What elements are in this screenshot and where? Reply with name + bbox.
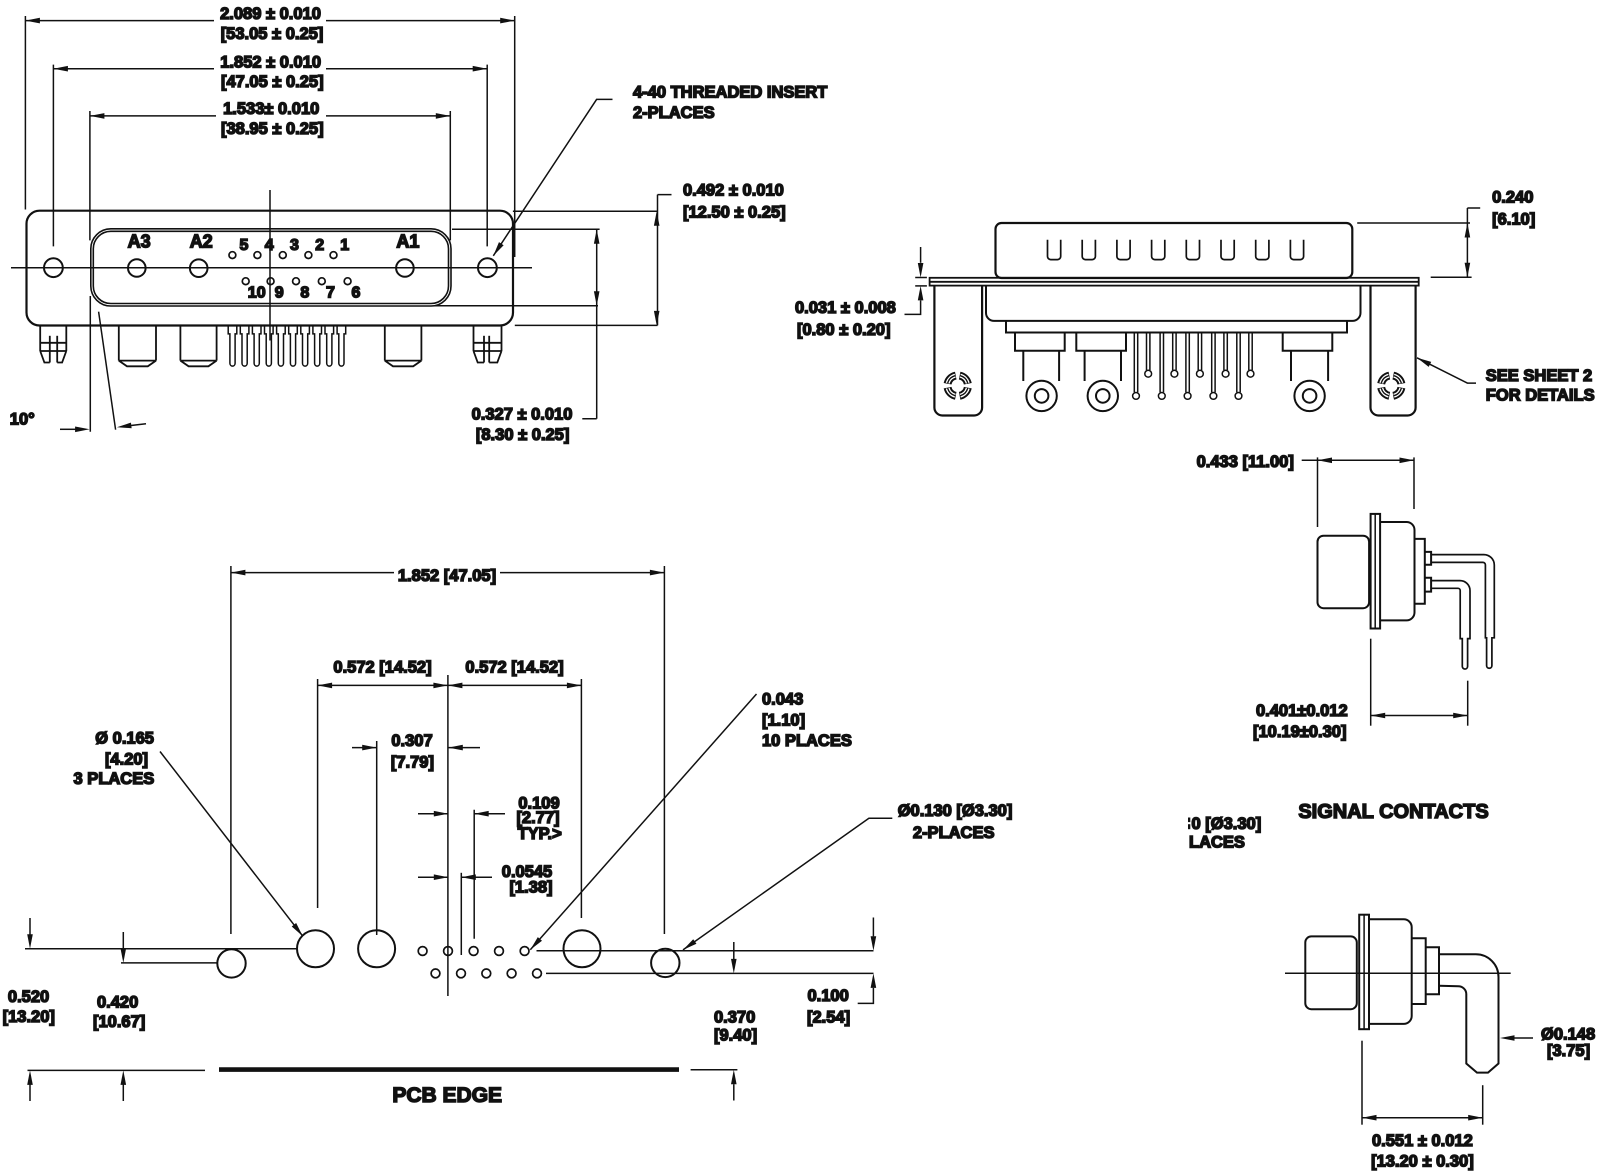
signal pin holes 10 9 8 7 6 (bottom row) [242, 278, 351, 285]
right bracket [1371, 286, 1416, 416]
connector flange outline [27, 211, 514, 326]
hole A3 [297, 930, 334, 967]
svg-text:10: 10 [248, 285, 266, 302]
svg-text:10 PLACES: 10 PLACES [762, 732, 852, 750]
contact flange [1371, 514, 1381, 629]
svg-text:[7.79]: [7.79] [391, 754, 434, 772]
dim 1.852 [47.05] (pcb) [231, 566, 665, 934]
dia 0.148 leader [1500, 1026, 1595, 1061]
D-sub opening (double outline) [91, 229, 451, 306]
svg-text:2-PLACES: 2-PLACES [633, 104, 715, 122]
svg-text:0.572 [14.52]: 0.572 [14.52] [465, 659, 563, 677]
hole A1 [564, 930, 601, 967]
svg-text:1: 1 [340, 237, 349, 254]
svg-text:8: 8 [300, 285, 309, 302]
dim 0.307 [7.79] [352, 732, 480, 935]
dim 0.109 [2.77] TYP [418, 795, 562, 939]
svg-text:0.307: 0.307 [391, 732, 432, 750]
dim 0.492 [12.50] [513, 182, 786, 326]
labels A3 A2 A1 [128, 232, 420, 252]
svg-text:Ø0.148: Ø0.148 [1541, 1026, 1595, 1044]
svg-text:PCB EDGE: PCB EDGE [392, 1084, 502, 1107]
svg-text:0.043: 0.043 [762, 691, 803, 709]
lower tab [1425, 578, 1431, 592]
svg-text:FOR DETAILS: FOR DETAILS [1486, 387, 1595, 405]
rivet symbol right [1377, 372, 1405, 400]
coax tail A1 [385, 326, 422, 367]
coax flange [1359, 915, 1369, 1029]
construction line upper left (0.520 level) [25, 948, 297, 950]
svg-text:[53.05 ± 0.25]: [53.05 ± 0.25] [221, 25, 324, 43]
svg-text:0.401±0.012: 0.401±0.012 [1256, 702, 1348, 720]
svg-text:SEE SHEET 2: SEE SHEET 2 [1486, 367, 1592, 385]
coax socket barrel [1305, 936, 1357, 1009]
svg-text:SIGNAL CONTACTS: SIGNAL CONTACTS [1298, 801, 1488, 823]
dim 2.089 [53.05] [25, 5, 514, 257]
svg-text:TYP.>: TYP.> [518, 825, 562, 843]
board lock right [474, 326, 502, 363]
note dia 0.165 3 places leader [74, 730, 305, 938]
hole A2 [358, 930, 395, 967]
signal holes top row [418, 947, 529, 956]
svg-text:1.852 [47.05]: 1.852 [47.05] [398, 567, 496, 585]
pin number labels top [239, 237, 349, 254]
vertical centerline [269, 190, 271, 341]
svg-text:0.031 ± 0.008: 0.031 ± 0.008 [795, 299, 896, 317]
dim 0.240 [6.10] [1357, 189, 1535, 278]
svg-text:2-PLACES: 2-PLACES [913, 824, 995, 842]
svg-text:[0.80 ± 0.20]: [0.80 ± 0.20] [797, 321, 890, 339]
svg-text:Ø 0.165: Ø 0.165 [95, 730, 154, 748]
note see sheet 2 leader [1416, 355, 1595, 404]
svg-text:[4.20]: [4.20] [105, 751, 148, 769]
svg-text:[1.10]: [1.10] [762, 712, 805, 730]
svg-text:1.533± 0.010: 1.533± 0.010 [223, 100, 319, 118]
dim 1.533 [38.95] [90, 100, 450, 240]
svg-text:A2: A2 [190, 232, 213, 252]
svg-text:0.572 [14.52]: 0.572 [14.52] [333, 659, 431, 677]
note 0.043 10 places leader [528, 691, 852, 952]
note 4-40 threaded insert leader [491, 83, 827, 257]
dim 0.572 left [318, 659, 448, 909]
svg-text:1.852 ± 0.010: 1.852 ± 0.010 [220, 53, 321, 71]
mounting flange plate (edge-on) [930, 278, 1419, 286]
svg-text:[13.20 ± 0.30]: [13.20 ± 0.30] [1371, 1153, 1474, 1171]
coax tail A2 [180, 326, 216, 367]
ten signal solder pins [228, 326, 346, 367]
svg-text:[2.54]: [2.54] [807, 1009, 850, 1027]
construction line bottom row right [546, 972, 874, 974]
svg-text:4: 4 [265, 237, 274, 254]
contact step [1415, 539, 1425, 604]
dim 0.100 [2.54] [807, 918, 876, 1027]
svg-text:6: 6 [352, 285, 361, 302]
coax tail A3 (side) [1015, 333, 1065, 412]
svg-text:3: 3 [290, 237, 299, 254]
svg-text:5: 5 [239, 237, 248, 254]
construction line mounting-hole level left (0.420) [121, 962, 217, 964]
svg-text:[38.95 ± 0.25]: [38.95 ± 0.25] [221, 120, 324, 138]
svg-text:LACES: LACES [1189, 834, 1245, 852]
vertical centerline [447, 675, 449, 996]
note dia 0.130 2 places leader [681, 802, 1012, 952]
dim 0.327 [8.30] [435, 229, 600, 444]
svg-text:[8.30 ± 0.25]: [8.30 ± 0.25] [476, 426, 569, 444]
svg-text:7: 7 [326, 285, 335, 302]
insulator body [986, 286, 1361, 321]
svg-text:[10.19±0.30]: [10.19±0.30] [1253, 723, 1346, 741]
upper tab [1425, 552, 1431, 565]
coax step 1 [1412, 938, 1426, 1004]
coax tail A3 [119, 326, 156, 367]
mounting hole right (pcb) [651, 949, 679, 977]
PCB EDGE thick line [219, 1067, 679, 1072]
svg-text:[47.05 ± 0.25]: [47.05 ± 0.25] [221, 73, 324, 91]
rivet symbol left [944, 372, 972, 400]
upper lead (bent) [1431, 555, 1494, 669]
horizontal centerline [11, 267, 532, 269]
svg-text:A1: A1 [396, 232, 419, 252]
svg-text:[1.38]: [1.38] [509, 879, 552, 897]
dim 0.433 [11.00] [1197, 453, 1414, 527]
coax body [1369, 919, 1412, 1024]
coax tail A2 (side) [1076, 333, 1126, 412]
signal holes bottom row [431, 969, 541, 978]
mounting hole right [478, 258, 497, 277]
svg-text:9: 9 [275, 285, 284, 302]
coax contact A2 [190, 259, 208, 277]
svg-text:[6.10]: [6.10] [1492, 211, 1535, 229]
svg-text:0.492 ± 0.010: 0.492 ± 0.010 [683, 182, 784, 200]
coax bent lead [1439, 954, 1499, 1072]
coax contact A3 [128, 259, 146, 277]
centerline [1285, 972, 1511, 974]
svg-text:[9.40]: [9.40] [714, 1027, 757, 1045]
dim 0.401 [10.19] [1253, 639, 1468, 741]
svg-text:2.089 ± 0.010: 2.089 ± 0.010 [220, 5, 321, 23]
left bracket [934, 286, 982, 416]
lower lead (bent) [1431, 581, 1470, 669]
shell (rear of D-sub) [996, 223, 1353, 278]
dim 0.520 [13.20] [3, 918, 55, 1101]
dim 1.852 [47.05] [53, 53, 487, 246]
svg-text:0.100: 0.100 [808, 987, 849, 1005]
insulator step [1006, 321, 1347, 333]
signal pins (side, alternating) [1133, 333, 1254, 400]
svg-text:[3.75]: [3.75] [1547, 1042, 1590, 1060]
svg-text:0.327 ± 0.010: 0.327 ± 0.010 [472, 406, 573, 424]
dim 0.572 right [448, 659, 582, 919]
contact body [1380, 522, 1414, 620]
pin number labels bottom [248, 285, 361, 302]
construction line top row right [537, 950, 874, 952]
coax contact A1 [396, 259, 414, 277]
svg-text:0 [Ø3.30]: 0 [Ø3.30] [1192, 815, 1262, 833]
10 degree draft angle callout [10, 296, 146, 432]
svg-text:A3: A3 [128, 232, 151, 252]
svg-text:Ø0.130 [Ø3.30]: Ø0.130 [Ø3.30] [898, 802, 1013, 820]
svg-text:[12.50 ± 0.25]: [12.50 ± 0.25] [683, 204, 786, 222]
svg-text:4-40 THREADED INSERT: 4-40 THREADED INSERT [633, 83, 827, 101]
dim 0.0545 [1.38] [418, 863, 553, 955]
svg-text:[13.20]: [13.20] [3, 1008, 55, 1026]
coax tail A1 (side) [1283, 333, 1333, 412]
signal pin holes 5 4 3 2 1 (top row) [229, 252, 337, 259]
svg-text:0.520: 0.520 [8, 988, 49, 1006]
mounting hole left (pcb) [217, 949, 245, 977]
svg-text:[10.67]: [10.67] [93, 1013, 145, 1031]
svg-text:0.551 ± 0.012: 0.551 ± 0.012 [1372, 1132, 1473, 1150]
svg-text:0.240: 0.240 [1492, 189, 1533, 207]
dim 0.370 [9.40] [714, 942, 757, 1101]
svg-text:0.433 [11.00]: 0.433 [11.00] [1197, 453, 1294, 471]
dim 0.420 [10.67] [93, 932, 145, 1101]
svg-text:10°: 10° [10, 411, 35, 429]
svg-text:2: 2 [315, 237, 324, 254]
svg-text:3 PLACES: 3 PLACES [74, 770, 155, 788]
svg-text:0.370: 0.370 [714, 1009, 755, 1027]
PCB edge baseline left [28, 1069, 206, 1071]
dim 0.551 [13.20] [1362, 1041, 1483, 1171]
coax step 2 [1426, 947, 1439, 994]
contact socket barrel [1318, 536, 1370, 609]
mounting hole left [44, 258, 63, 277]
dim 0.031 [0.80] [795, 247, 927, 339]
PCB edge extension right [691, 1069, 738, 1071]
svg-text:0.420: 0.420 [97, 993, 138, 1011]
board lock left [40, 326, 66, 363]
contact slots inside shell [1048, 240, 1304, 260]
